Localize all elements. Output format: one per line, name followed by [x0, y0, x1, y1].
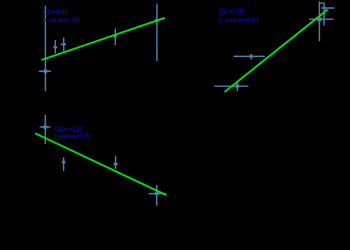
svg-text:p-value=0.11: p-value=0.11	[55, 133, 92, 140]
svg-text:p-value=0.05: p-value=0.05	[43, 17, 80, 24]
svg-text:CC=0.94: CC=0.94	[219, 8, 245, 15]
svg-text:CC=-0.37: CC=-0.37	[55, 126, 83, 133]
svg-text:p-value=0.01: p-value=0.01	[219, 17, 259, 24]
svg-text:CC=0.95: CC=0.95	[43, 9, 69, 16]
